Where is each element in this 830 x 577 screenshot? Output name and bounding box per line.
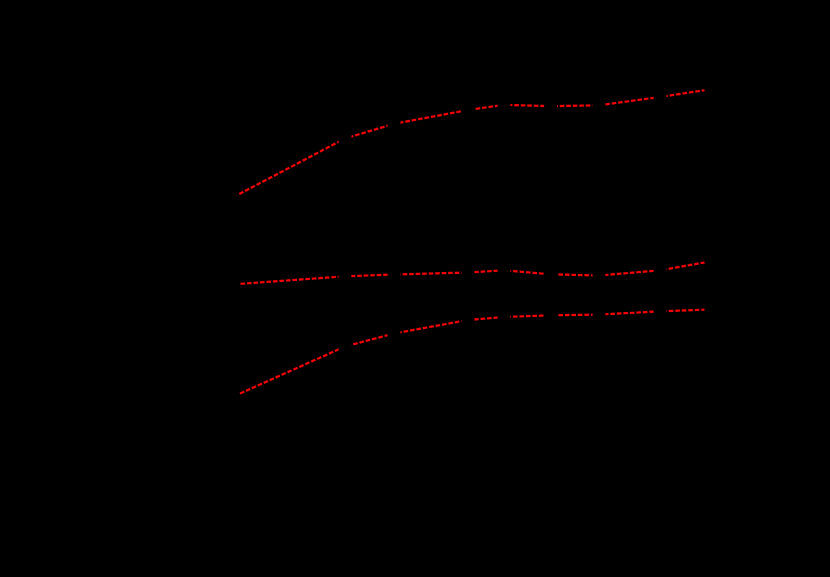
middle curve (red dashed) bbox=[241, 263, 705, 284]
bottom curve (red dashed) bbox=[240, 310, 705, 394]
invisible black point markers (wipe gaps) top curve bbox=[339, 90, 667, 145]
top curve (red dashed) bbox=[239, 90, 704, 194]
invisible black point markers (wipe gaps) middle curve bbox=[339, 264, 667, 283]
invisible black point markers (wipe gaps) bottom curve bbox=[339, 305, 667, 353]
